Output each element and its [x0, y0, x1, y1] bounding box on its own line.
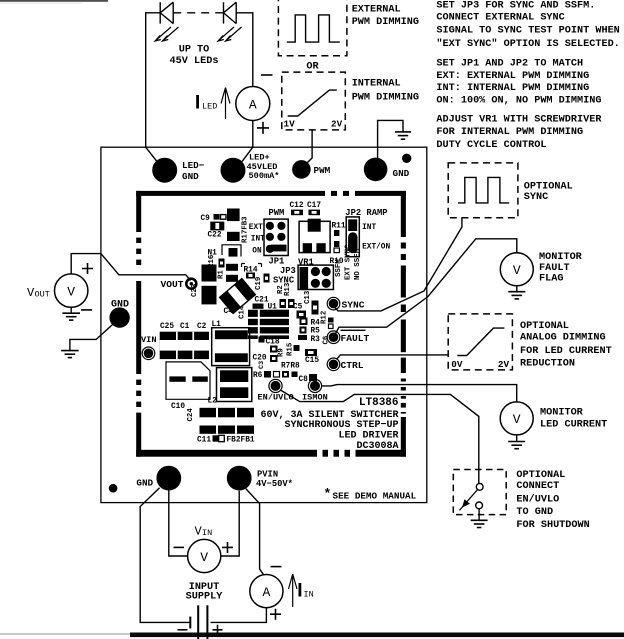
svg-text:EXT/ON: EXT/ON — [362, 243, 390, 251]
svg-text:2V: 2V — [498, 359, 510, 370]
label minus (iin ammeter) — [271, 566, 282, 568]
svg-text:FLAG: FLAG — [539, 274, 563, 285]
parts under C5 — [297, 311, 307, 319]
svg-text:EXT: EXTERNAL PWM DIMMING: EXT: EXTERNAL PWM DIMMING — [436, 71, 589, 82]
svg-text:CONNECT EXTERNAL SYNC: CONNECT EXTERNAL SYNC — [436, 13, 564, 24]
testpoint SYNC — [327, 297, 340, 310]
border wire gaps right — [400, 298, 406, 305]
border dash gaps right upper — [400, 237, 406, 243]
wire ISMON to LED current meter — [322, 385, 517, 402]
wire sync box to SYNC testpoint — [334, 218, 462, 311]
svg-text:R6: R6 — [253, 372, 263, 380]
box internal pwm dimming (dashed) — [282, 72, 346, 130]
svg-text:INTERNAL: INTERNAL — [352, 79, 401, 90]
svg-text:PWM: PWM — [269, 208, 285, 218]
svg-text:1V: 1V — [284, 118, 296, 129]
svg-text:*: * — [324, 487, 332, 502]
svg-text:LED−: LED− — [182, 160, 205, 171]
svg-text:V: V — [513, 263, 521, 278]
svg-text:FAULT: FAULT — [539, 263, 570, 274]
wire LED- string left — [146, 13, 161, 164]
svg-text:EXT: EXT — [249, 224, 263, 232]
svg-text:ANALOG DIMMING: ANALOG DIMMING — [520, 333, 606, 344]
label plus (vout meter) — [82, 263, 93, 274]
svg-text:R15: R15 — [287, 342, 295, 356]
capacitor C4 (rotated) — [220, 279, 256, 314]
svg-text:C12: C12 — [290, 202, 304, 210]
capacitor C12 — [291, 210, 303, 216]
svg-text:FAULT: FAULT — [341, 333, 370, 344]
capacitors C25 C1 C2 row — [160, 332, 209, 359]
parts left of R4 R5 R3 — [300, 318, 308, 326]
scan edge mark top — [0, 0, 108, 2]
voltmeter VOUT — [54, 274, 87, 307]
resistor R11 — [334, 230, 339, 247]
svg-text:R5: R5 — [311, 328, 321, 336]
svg-text:LED DRIVER: LED DRIVER — [338, 430, 398, 441]
svg-text:SYNC: SYNC — [524, 192, 548, 203]
turret LED-GND — [152, 158, 177, 183]
arrow IIN up — [289, 574, 298, 607]
capacitor near C18 — [259, 337, 265, 343]
svg-text:4V−50V*: 4V−50V* — [256, 479, 293, 489]
svg-text:A: A — [262, 585, 270, 600]
svg-text:SEE DEMO MANUAL: SEE DEMO MANUAL — [333, 490, 417, 501]
svg-text:R7R8: R7R8 — [281, 363, 300, 371]
svg-text:C10: C10 — [171, 403, 185, 411]
svg-text:C22: C22 — [208, 231, 222, 239]
svg-text:LED: LED — [202, 102, 217, 112]
IC U1 — [248, 304, 289, 340]
capacitor C8 part — [309, 374, 317, 381]
svg-text:"EXT SYNC" OPTION IS SELECTED.: "EXT SYNC" OPTION IS SELECTED. — [436, 38, 619, 50]
svg-text:C17: C17 — [307, 202, 321, 210]
svg-text:C1: C1 — [180, 323, 190, 331]
svg-text:UP TO: UP TO — [179, 45, 210, 56]
ground symbol (fault meter) — [508, 286, 525, 299]
resistor block under R17 — [227, 232, 240, 241]
label FAULT (overline) — [341, 329, 366, 331]
parts near R9 R15 — [270, 346, 278, 353]
svg-text:R1: R1 — [218, 270, 226, 279]
inductor L2 — [217, 368, 252, 402]
svg-text:INT: INTERNAL PWM DIMMING: INT: INTERNAL PWM DIMMING — [436, 83, 589, 94]
wire EN/UVLO to switch box — [281, 390, 479, 483]
inductor L1 — [212, 328, 250, 366]
label minus (vout meter) — [81, 309, 92, 311]
svg-text:NO SSFM: NO SSFM — [354, 248, 362, 280]
capacitor C10 outline — [166, 362, 210, 399]
voltmeter monitor fault flag — [500, 253, 533, 286]
svg-text:OPTIONAL: OPTIONAL — [516, 470, 565, 481]
svg-text:CONNECT: CONNECT — [516, 481, 559, 492]
ground symbol (vout meter) — [62, 307, 80, 320]
svg-text:ADJUST VR1 WITH SCREWDRIVER: ADJUST VR1 WITH SCREWDRIVER — [436, 115, 602, 126]
svg-text:SIGNAL TO SYNC TEST POINT WHEN: SIGNAL TO SYNC TEST POINT WHEN — [436, 26, 619, 37]
waveform optional sync — [458, 177, 509, 203]
svg-text:C25: C25 — [160, 323, 174, 331]
potentiometer VR1 — [299, 219, 330, 253]
svg-text:45V LEDs: 45V LEDs — [170, 56, 219, 67]
label minus (vin meter) — [174, 546, 185, 548]
demo board outline — [101, 147, 427, 502]
svg-text:V: V — [513, 412, 521, 427]
switch S1 — [460, 483, 484, 510]
parts near R6 — [264, 371, 271, 378]
waveform analog ramp — [457, 328, 504, 355]
svg-text:SET JP1 AND JP2 TO MATCH: SET JP1 AND JP2 TO MATCH — [436, 59, 583, 70]
wire CTRL to analog dimming box — [337, 355, 448, 359]
ground symbol (led current meter) — [508, 435, 525, 449]
svg-text:C3: C3 — [258, 361, 266, 369]
resistor R1 — [226, 264, 238, 282]
svg-text:L2: L2 — [208, 397, 218, 405]
mounting dot bottom left — [109, 484, 118, 493]
capacitors C24 row — [200, 408, 255, 434]
svg-text:C5: C5 — [293, 303, 303, 311]
turret GND left — [109, 307, 129, 327]
wire internal box to PWM turret — [306, 130, 313, 165]
wire GND left to ground — [70, 325, 113, 351]
scan edge bar bottom — [130, 633, 624, 638]
svg-text:SYNC: SYNC — [273, 275, 295, 285]
svg-text:GND: GND — [111, 299, 129, 310]
svg-text:PWM DIMMING: PWM DIMMING — [352, 92, 419, 103]
ground symbol (left gnd) — [61, 351, 79, 358]
svg-text:FOR LED CURRENT: FOR LED CURRENT — [520, 346, 612, 357]
svg-text:TO GND: TO GND — [516, 507, 553, 518]
svg-text:R12: R12 — [321, 311, 329, 324]
svg-text:A: A — [249, 97, 257, 112]
wire ammeter to LED+ turret — [242, 121, 253, 162]
svg-text:MONITOR: MONITOR — [540, 408, 584, 419]
mounting dot top right — [402, 154, 411, 163]
svg-text:PVIN: PVIN — [257, 469, 278, 479]
turret LED+ — [221, 158, 246, 183]
resistor R16 part — [219, 259, 225, 268]
wire VOUT meter to VOUT pad — [71, 254, 190, 281]
svg-text:EXT SYNC: EXT SYNC — [345, 244, 353, 280]
border dash gaps left upper — [136, 232, 142, 238]
box external pwm dimming (dashed) — [278, 0, 347, 56]
wire LED+ string right — [236, 13, 253, 87]
svg-text:MONITOR: MONITOR — [539, 252, 583, 263]
svg-text:C9: C9 — [201, 215, 211, 223]
svg-text:C24: C24 — [187, 408, 195, 422]
box optional sync (dashed) — [448, 163, 518, 218]
border dash gaps top — [325, 190, 331, 196]
svg-text:C15: C15 — [305, 357, 319, 365]
svg-text:SSFM: SSFM — [335, 259, 343, 277]
capacitor C22 — [211, 222, 224, 229]
svg-text:OUT: OUT — [35, 290, 50, 300]
svg-text:R9: R9 — [278, 348, 286, 357]
box optional analog dimming (dashed) — [448, 314, 512, 370]
svg-text:C4: C4 — [224, 308, 234, 316]
svg-text:OR: OR — [306, 61, 319, 72]
wire GND turret to ground (top) — [378, 120, 403, 158]
svg-text:C18: C18 — [266, 338, 280, 346]
svg-text:V: V — [67, 284, 75, 299]
svg-text:PWM DIMMING: PWM DIMMING — [352, 17, 419, 28]
label plus (iin ammeter) — [270, 609, 281, 620]
LED D2 — [218, 2, 242, 41]
wire ammeter to battery plus — [211, 608, 267, 623]
wire VIN meter plus to PVIN turret — [221, 491, 239, 556]
capacitor C15 part — [305, 349, 317, 356]
svg-text:IN: IN — [202, 528, 212, 538]
resistors R2 R13 — [280, 299, 287, 308]
svg-text:VOUT: VOUT — [161, 279, 184, 290]
resistor R17/FB3 block — [227, 209, 240, 222]
turret PWM — [292, 160, 311, 179]
ground symbol (top) — [395, 132, 411, 139]
svg-text:OPTIONAL: OPTIONAL — [520, 321, 569, 332]
svg-text:FOR INTERNAL PWM DIMMING: FOR INTERNAL PWM DIMMING — [436, 127, 583, 138]
LED D1 — [155, 2, 179, 41]
testpoint VOUT — [186, 279, 196, 289]
svg-text:VR1: VR1 — [298, 258, 314, 268]
testpoint EN/UVLO — [269, 379, 282, 392]
svg-text:R4: R4 — [311, 319, 321, 327]
svg-text:FB2FB1: FB2FB1 — [227, 436, 255, 444]
ammeter A2 (input current) — [250, 575, 283, 608]
label plus (battery) — [213, 625, 223, 635]
svg-text:EN/UVLO: EN/UVLO — [516, 493, 559, 505]
note text block top right — [436, 1, 619, 151]
turret PVIN — [227, 466, 252, 491]
svg-text:SUPPLY: SUPPLY — [186, 592, 224, 603]
testpoint ISMON — [308, 379, 321, 392]
capacitor C11 — [213, 435, 219, 441]
capacitor C9 — [214, 214, 220, 220]
svg-text:GND: GND — [136, 477, 153, 488]
border dash gaps left lower — [136, 374, 142, 380]
wire GND turret to battery minus — [140, 488, 190, 623]
border dash gaps bottom — [317, 449, 323, 457]
svg-text:SYNC: SYNC — [342, 299, 365, 310]
label plus (ammeter bottom) — [257, 122, 269, 134]
voltmeter monitor led current — [500, 402, 533, 435]
capacitor C13 part — [312, 301, 319, 315]
svg-text:C11: C11 — [197, 436, 211, 444]
svg-text:LED CURRENT: LED CURRENT — [540, 419, 607, 430]
svg-text:ON: 100% ON, NO PWM DIMMING: ON: 100% ON, NO PWM DIMMING — [436, 95, 601, 106]
svg-text:C8: C8 — [299, 376, 309, 384]
waveform internal ramp — [288, 90, 337, 116]
svg-text:JP1: JP1 — [269, 257, 285, 267]
svg-text:C23: C23 — [191, 283, 199, 297]
label minus (ammeter top) — [261, 74, 273, 76]
svg-text:GND: GND — [182, 171, 199, 182]
svg-text:R11: R11 — [332, 223, 346, 231]
svg-text:IN: IN — [304, 590, 314, 600]
label minus (battery) — [178, 629, 188, 631]
turret GND top — [364, 158, 388, 182]
svg-text:FOR SHUTDOWN: FOR SHUTDOWN — [516, 520, 589, 531]
turret GND bottom — [156, 466, 181, 491]
svg-text:R3: R3 — [311, 336, 321, 344]
wire fault meter to FAULT testpoint — [336, 239, 517, 333]
svg-text:C14: C14 — [239, 305, 247, 319]
testpoint CTRL — [327, 358, 340, 371]
svg-text:SET JP3 FOR SYNC AND SSFM.: SET JP3 FOR SYNC AND SSFM. — [436, 1, 595, 12]
capacitor C23 — [202, 265, 217, 282]
capacitor C17 — [309, 210, 321, 216]
ammeter A1 (LED current) — [236, 87, 270, 121]
svg-text:C2: C2 — [197, 323, 207, 331]
battery input supply — [190, 605, 207, 639]
silkscreen border square — [136, 190, 407, 457]
svg-text:0V: 0V — [451, 359, 463, 370]
svg-text:VIN: VIN — [141, 335, 156, 345]
svg-text:LED+: LED+ — [249, 152, 270, 162]
capacitor below R11 — [334, 248, 339, 253]
label IIN — [299, 583, 302, 597]
voltmeter VIN — [188, 539, 221, 572]
svg-text:INT: INT — [251, 235, 265, 243]
testpoint FAULT — [327, 331, 340, 344]
svg-text:OPTIONAL: OPTIONAL — [524, 181, 573, 192]
label plus (vin meter) — [222, 542, 233, 553]
svg-text:C19: C19 — [255, 277, 263, 290]
header JP2 — [346, 217, 359, 257]
wire dashed more-LEDs — [173, 12, 223, 14]
small caps row under R14 — [246, 273, 255, 279]
arrow ILED up — [221, 88, 230, 120]
header JP3 — [298, 265, 333, 289]
svg-text:V: V — [200, 550, 208, 565]
ground symbol (switch) — [471, 509, 488, 528]
waveform external pwm — [287, 15, 340, 42]
wire PVIN to ammeter — [246, 489, 264, 576]
svg-text:CTRL: CTRL — [341, 360, 364, 371]
svg-text:PWM: PWM — [314, 165, 331, 176]
resistor R12 part — [328, 318, 334, 323]
box optional en/uvlo switch (dashed) — [453, 470, 506, 515]
svg-text:DUTY CYCLE CONTROL: DUTY CYCLE CONTROL — [436, 140, 546, 151]
svg-text:GND: GND — [393, 168, 410, 179]
inductor N1 outline — [222, 245, 241, 257]
svg-text:EXTERNAL: EXTERNAL — [352, 4, 401, 15]
svg-text:INT: INT — [362, 224, 376, 232]
testpoint VIN — [142, 347, 155, 360]
svg-text:500mA*: 500mA* — [249, 171, 280, 181]
label ILED — [196, 95, 199, 109]
svg-text:ON: ON — [252, 248, 262, 256]
svg-text:LT8386: LT8386 — [359, 397, 399, 409]
header JP1 — [264, 219, 288, 255]
wire GND turret to VIN meter minus — [169, 491, 188, 557]
svg-text:C13: C13 — [304, 290, 312, 304]
svg-text:2V: 2V — [331, 118, 343, 129]
svg-text:REDUCTION: REDUCTION — [520, 358, 575, 369]
svg-text:SYNCHRONOUS STEP−UP: SYNCHRONOUS STEP−UP — [284, 420, 398, 431]
svg-text:DC3008A: DC3008A — [356, 441, 398, 452]
